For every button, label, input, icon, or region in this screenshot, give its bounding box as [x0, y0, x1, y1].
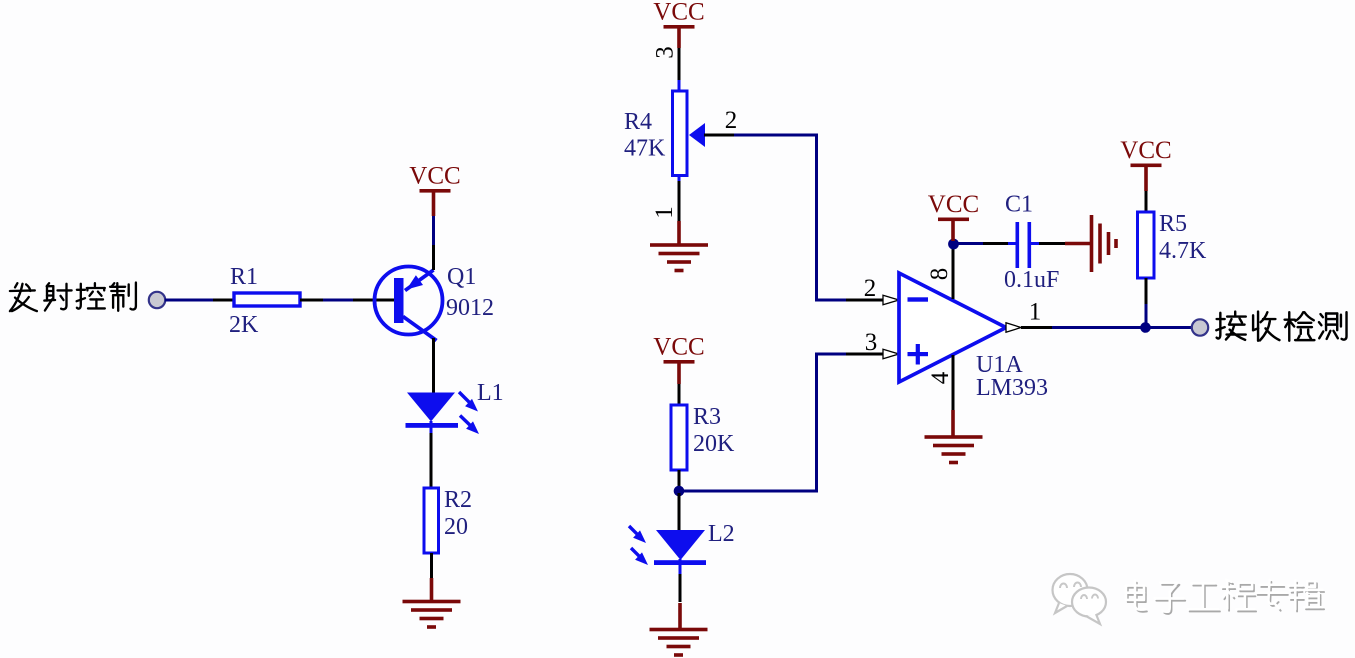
pin U1A.8 [952, 243, 955, 299]
L1 arrow 2 [460, 416, 475, 431]
ground stub G5 [1065, 242, 1091, 246]
wire junction to L2 [678, 493, 681, 530]
transistor Q1 circle [375, 267, 443, 335]
Q1 base bar [394, 278, 404, 323]
wire C1 to ground [1031, 242, 1039, 245]
svg-text:4: 4 [927, 371, 954, 384]
ground stub G2 [677, 221, 681, 246]
pin R4.2 [704, 134, 735, 137]
wire R3 to U1A pin3 [679, 354, 846, 491]
svg-text:47K: 47K [624, 136, 666, 162]
pin R1.2 [300, 299, 323, 302]
LED L2 bar [654, 560, 706, 565]
net label 发射控制 (emit control) [10, 283, 136, 312]
ground G4 [925, 435, 983, 439]
ground stub G4 [951, 410, 955, 438]
U1A input arrow pin3 [883, 349, 899, 359]
wire L1 to R2 [430, 421, 433, 433]
wire pin8 to C1 [953, 242, 983, 245]
pin R2.2 [430, 553, 433, 578]
wire Q1 collector to L1 [432, 338, 435, 393]
R4 wiper arrow [689, 123, 705, 147]
power VCC stub U1A [951, 221, 955, 241]
pin R4.3 [678, 48, 681, 80]
wire T1 to R1 [165, 299, 213, 302]
LED L2 triangle [656, 530, 705, 560]
junction node pin8/VCC/C1 [948, 239, 959, 250]
watermark text 电子工程专辑 [1126, 580, 1324, 614]
resistor R5 body [1138, 212, 1155, 278]
op-amp U1A triangle [899, 273, 1006, 382]
svg-text:C1: C1 [1005, 192, 1033, 218]
LED L1 triangle [407, 393, 455, 422]
pin R4.1 [678, 175, 681, 181]
U1A output arrow [1006, 323, 1021, 333]
ground G2 [650, 243, 708, 247]
svg-text:R4: R4 [624, 109, 652, 135]
wire U1A out to terminal [1052, 326, 1192, 329]
watermark logo [1053, 574, 1107, 624]
ground stub G3 [678, 603, 682, 630]
resistor R2 body [424, 488, 439, 553]
svg-text:Q1: Q1 [447, 264, 476, 290]
pin R5.1 [1145, 191, 1148, 213]
potentiometer R4 body [673, 91, 688, 176]
svg-text:1: 1 [651, 206, 678, 219]
L2 arrow 2 [631, 548, 642, 559]
wire R5 to output [1145, 304, 1148, 328]
svg-text:VCC: VCC [409, 163, 460, 190]
Q1 emitter [405, 270, 434, 291]
svg-text:R5: R5 [1159, 211, 1187, 237]
power VCC stub R4 [677, 28, 681, 48]
pin R3.2 [678, 470, 681, 491]
svg-text:2: 2 [725, 107, 738, 134]
terminal T1 [149, 292, 165, 308]
ground stub G1 [430, 578, 434, 602]
svg-text:R1: R1 [230, 264, 258, 290]
svg-text:3: 3 [865, 329, 878, 356]
wire R4 wiper to U1A pin2 [734, 134, 818, 137]
capacitor C1 plates [1016, 222, 1020, 268]
wire Q1 emitter up [432, 245, 435, 270]
pin Q1 base [353, 299, 397, 302]
svg-text:8: 8 [926, 268, 953, 281]
svg-text:20: 20 [444, 514, 468, 540]
svg-text:1: 1 [1029, 299, 1042, 326]
svg-text:L1: L1 [477, 380, 504, 406]
svg-text:VCC: VCC [928, 191, 979, 218]
svg-text:4.7K: 4.7K [1159, 238, 1207, 264]
svg-text:20K: 20K [693, 431, 735, 457]
pin R5.2 [1145, 278, 1148, 304]
Q1 collector [403, 317, 437, 341]
pin U1A.4 [952, 355, 955, 410]
svg-text:3: 3 [652, 46, 679, 59]
pin U1A.1 stub [1021, 326, 1053, 329]
U1A input arrow pin2 [883, 295, 899, 305]
junction node R3/L2 [674, 486, 685, 497]
svg-text:0.1uF: 0.1uF [1004, 267, 1059, 293]
svg-text:VCC: VCC [653, 0, 704, 26]
net label 接收检测 (receive detect) [1216, 312, 1346, 341]
junction node output/R5 [1140, 322, 1151, 333]
U1A minus sign [908, 297, 929, 301]
resistor R3 body [671, 405, 687, 470]
svg-text:R2: R2 [444, 487, 472, 513]
resistor R1 body [234, 293, 300, 306]
ground G1 [403, 600, 461, 604]
pin U1A.3 stub [846, 353, 884, 356]
svg-text:VCC: VCC [653, 334, 704, 361]
pin R3.1 [678, 384, 681, 406]
svg-text:R3: R3 [693, 404, 721, 430]
svg-text:2: 2 [864, 275, 877, 302]
terminal T2 [1192, 319, 1208, 335]
svg-text:9012: 9012 [446, 295, 494, 321]
pin L2.2 [679, 559, 682, 574]
svg-text:2K: 2K [229, 312, 259, 338]
ground G5 sideways [1090, 215, 1094, 272]
svg-text:LM393: LM393 [976, 375, 1048, 401]
svg-text:VCC: VCC [1120, 137, 1171, 164]
power VCC stub R3 [677, 363, 681, 384]
U1A plus sign [908, 352, 929, 356]
power VCC stub R5 [1144, 167, 1148, 191]
svg-text:L2: L2 [708, 521, 735, 547]
L2 arrow 1 [629, 526, 640, 537]
pin R1.1 [213, 299, 235, 302]
wire R1 to Q1 [323, 299, 353, 302]
LED L1 bar [406, 423, 459, 428]
L1 arrow 1 [459, 392, 474, 407]
power VCC stub Q1 [432, 191, 436, 216]
pin U1A.2 stub [846, 299, 884, 302]
ground G3 [650, 628, 708, 632]
